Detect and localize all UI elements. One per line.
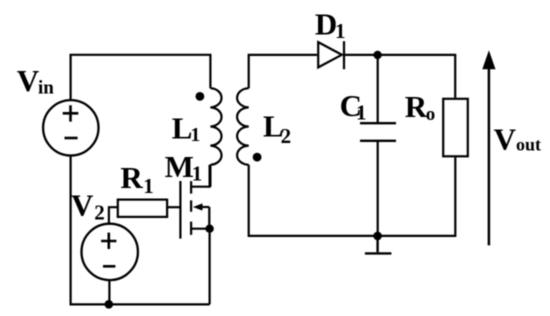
svg-text:V: V (494, 122, 517, 157)
wire: diode cathode to Ro top corner (344, 55, 456, 98)
capacitor C1 (360, 123, 396, 141)
wire: V2 top to R1 (109, 207, 118, 223)
svg-text:1: 1 (143, 174, 154, 198)
inductor L2 (secondary winding) (237, 88, 249, 165)
svg-text:M: M (165, 149, 194, 184)
wire: node between D1 and C1 top (377, 55, 379, 123)
wire: M1 source to bottom rail (209, 229, 211, 305)
phase dot: L1 (196, 92, 205, 101)
wire: Vin bottom to primary bottom rail (71, 156, 210, 305)
junction: C1 bottom / ground node (373, 232, 382, 241)
wire: R1 to M1 gate (168, 206, 180, 208)
voltage source Vin (43, 100, 98, 155)
inductor L1 (primary winding) (210, 88, 221, 187)
wire: L2 top to diode anode (249, 55, 317, 88)
wire: C1 bottom to bottom rail (377, 141, 379, 236)
phase dot: L2 (253, 153, 262, 162)
svg-text:V: V (17, 63, 40, 98)
svg-text:out: out (516, 134, 541, 154)
svg-text:1: 1 (335, 19, 346, 43)
diode D1 (318, 41, 344, 69)
transistor M1 body arrow (193, 203, 203, 210)
Vout arrow (488, 66, 491, 245)
resistor Ro (443, 99, 468, 157)
voltage source V2 (82, 224, 138, 280)
svg-text:1: 1 (356, 100, 367, 124)
svg-text:in: in (38, 78, 54, 99)
svg-text:1: 1 (191, 125, 201, 146)
ground (365, 236, 392, 254)
svg-text:2: 2 (281, 124, 292, 148)
svg-text:L: L (172, 111, 193, 146)
svg-text:2: 2 (94, 201, 105, 225)
wire: secondary bottom rail (249, 157, 456, 236)
transistor M1 (NMOS) (180, 165, 209, 239)
junction: D1 cathode / C1 / Ro top node (373, 51, 381, 59)
junction: M1 source node (205, 225, 213, 233)
svg-text:D: D (315, 6, 337, 41)
svg-text:1: 1 (192, 161, 203, 185)
svg-text:o: o (426, 104, 436, 125)
wire: V2 bottom to bottom rail (108, 280, 110, 304)
svg-text:R: R (405, 89, 428, 124)
svg-text:R: R (120, 160, 143, 195)
svg-text:V: V (71, 188, 94, 223)
resistor R1 (118, 200, 167, 217)
wire: Vin top to L1 primary top (71, 55, 211, 99)
junction: V2 bottom rail node (105, 300, 114, 309)
